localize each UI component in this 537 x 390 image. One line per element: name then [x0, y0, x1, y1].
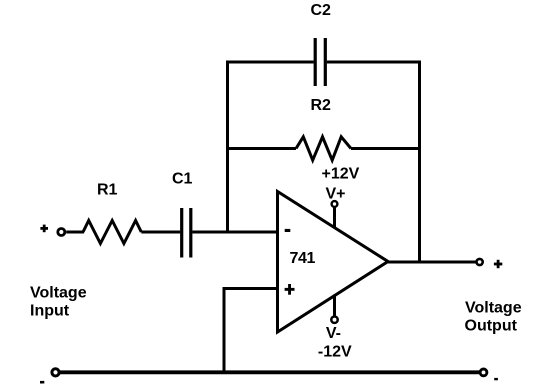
svg-text:C2: C2	[311, 2, 332, 19]
svg-text:V-: V-	[326, 325, 341, 342]
wire C1 to inverting input	[192, 231, 277, 234]
output plus sign	[494, 260, 502, 268]
svg-text:Output: Output	[465, 318, 518, 335]
wire left feedback vertical	[226, 61, 229, 233]
wire R2 rail left lead	[226, 147, 296, 150]
ground left minus label	[40, 381, 44, 384]
wire non-inverting down leg	[223, 287, 226, 373]
inverting input minus label	[285, 229, 291, 232]
svg-text:+12V: +12V	[322, 165, 360, 182]
wire top rail right segment	[327, 61, 420, 64]
wire V- pin	[333, 295, 336, 317]
svg-text:Input: Input	[30, 302, 70, 319]
wire right feedback vertical	[418, 61, 421, 263]
input terminal circle	[58, 229, 65, 236]
wire R1 to C1	[141, 231, 180, 234]
output terminal circle	[477, 259, 483, 265]
svg-text:Voltage: Voltage	[465, 300, 522, 317]
wire V+ pin	[333, 207, 336, 228]
svg-text:C1: C1	[172, 171, 193, 188]
ground left terminal circle	[52, 369, 59, 376]
svg-text:R1: R1	[97, 182, 118, 199]
wire R2 rail right lead	[351, 147, 421, 150]
svg-text:741: 741	[290, 250, 316, 267]
wire non-inverting input horizontal	[224, 287, 278, 290]
wire top rail left segment	[228, 61, 314, 64]
ground rail	[60, 370, 480, 374]
ground right terminal circle	[480, 369, 487, 376]
op-amp U1 triangle	[278, 192, 389, 333]
capacitor C1	[182, 208, 191, 258]
svg-text:Voltage: Voltage	[30, 284, 87, 301]
non-inverting input plus label	[285, 284, 295, 295]
svg-text:-12V: -12V	[318, 343, 352, 360]
resistor R2	[296, 137, 351, 160]
svg-text:V+: V+	[326, 186, 346, 203]
V+ terminal circle	[332, 201, 338, 207]
svg-text:R2: R2	[311, 97, 332, 114]
input plus sign	[40, 225, 48, 233]
resistor R1	[83, 221, 141, 244]
ground right minus label	[494, 378, 498, 380]
wire input lead	[66, 231, 84, 234]
V- terminal circle	[331, 317, 337, 323]
capacitor C2	[315, 38, 325, 86]
wire output	[388, 261, 476, 264]
